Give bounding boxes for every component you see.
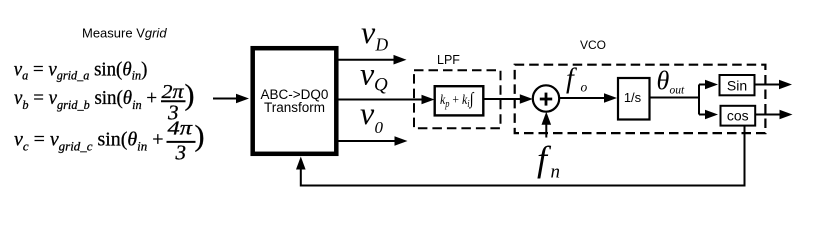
svg-text:v: v [360, 56, 375, 92]
svg-text:Measure Vgrid: Measure Vgrid [82, 26, 167, 41]
svg-text:n: n [551, 162, 561, 183]
svg-text:3: 3 [175, 141, 187, 165]
svg-text:v: v [361, 14, 376, 50]
svg-text:out: out [670, 85, 686, 97]
svg-text:kp + ki∫: kp + ki∫ [440, 89, 475, 110]
svg-text:cos: cos [727, 108, 749, 124]
svg-text:θ: θ [657, 66, 670, 95]
svg-text:Sin: Sin [727, 78, 747, 94]
svg-text:Q: Q [374, 75, 388, 96]
svg-text:o: o [581, 80, 588, 95]
svg-text:VCO: VCO [580, 38, 606, 52]
svg-text:v: v [360, 95, 375, 131]
svg-text:Transform: Transform [264, 100, 325, 115]
svg-text:0: 0 [375, 118, 384, 137]
svg-text:D: D [375, 35, 389, 55]
svg-text:4π: 4π [168, 118, 194, 140]
svg-text:): ) [185, 79, 195, 112]
svg-text:): ) [195, 120, 205, 153]
svg-text:LPF: LPF [437, 53, 460, 67]
svg-text:1/s: 1/s [624, 90, 642, 105]
